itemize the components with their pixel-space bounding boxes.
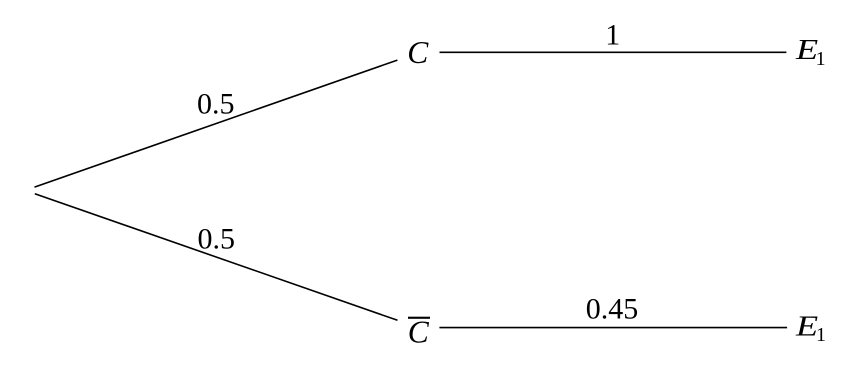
node E1 (bottom) (795, 311, 826, 346)
wire: branch root to C-bar (35, 194, 398, 321)
svg-text:E: E (795, 311, 818, 343)
svg-text:0.5: 0.5 (197, 88, 235, 121)
svg-text:1: 1 (605, 18, 620, 51)
wire: branch C to E1 (440, 51, 787, 53)
svg-text:1: 1 (816, 48, 826, 70)
node E1 (top) (795, 34, 826, 70)
svg-text:0.5: 0.5 (197, 223, 235, 256)
svg-text:C: C (408, 315, 430, 350)
svg-text:0.45: 0.45 (586, 293, 639, 326)
wire: branch root to C (35, 60, 398, 187)
wire: branch C-bar to E1 (439, 327, 787, 329)
svg-text:C: C (407, 35, 429, 70)
node C-bar (408, 315, 430, 350)
svg-text:1: 1 (816, 324, 826, 346)
